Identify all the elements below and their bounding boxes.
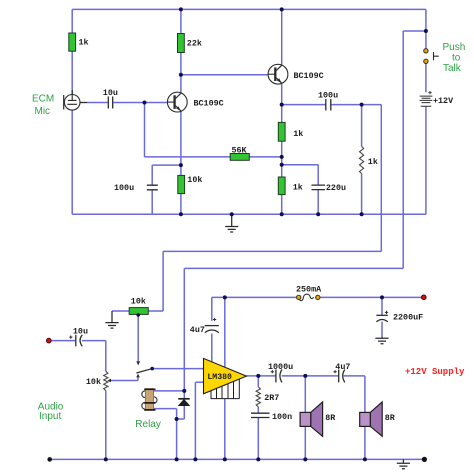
ground 2200uF — [375, 337, 388, 344]
svg-text:4u7: 4u7 — [190, 325, 205, 335]
junction bottom rail speaker2 — [363, 457, 367, 461]
wire 56K feedback — [145, 103, 282, 157]
svg-text:8R: 8R — [325, 413, 336, 423]
label capacitor 1000u label — [268, 362, 293, 372]
svg-text:+12V: +12V — [433, 96, 454, 106]
op-amp LM380 — [204, 358, 247, 398]
junction bottom rail LM380 gnd — [223, 457, 227, 461]
capacitor 100u emitter bypass — [147, 185, 158, 190]
svg-text:100n: 100n — [272, 412, 292, 422]
junction 56K right — [280, 155, 284, 159]
junction supply 2200uF — [380, 295, 384, 299]
resistor 2R7 zigzag — [256, 387, 260, 407]
label 100u bypass — [114, 183, 134, 193]
label Input — [39, 411, 61, 422]
junction top rail Q2 — [280, 7, 284, 11]
label 1k — [293, 182, 303, 192]
svg-text:10k: 10k — [187, 175, 202, 185]
wire PTT branch to relay — [184, 31, 426, 391]
resistor 1k Q2 emitter lower — [278, 177, 285, 195]
wire relay and diode — [154, 391, 185, 460]
wire switch pole to LM380 input — [154, 368, 204, 370]
wire 4u7 bypass branch — [211, 297, 213, 362]
svg-text:250mA: 250mA — [296, 285, 322, 295]
wire mic-pot wiper to switch — [137, 315, 139, 361]
label 1k volume — [368, 157, 378, 167]
capacitor 100n — [251, 413, 270, 417]
junction bottom rail relay — [175, 457, 179, 461]
junction bottom rail zobel — [256, 457, 260, 461]
junction relay top — [182, 389, 186, 393]
label 10k — [187, 175, 202, 185]
wire Q2 emitter column — [281, 84, 283, 214]
svg-text:Mic: Mic — [35, 106, 51, 117]
resistor 10k audio pot — [104, 371, 108, 390]
black terminal right — [422, 457, 427, 462]
svg-text:10k: 10k — [86, 377, 101, 387]
junction rail ground — [230, 212, 234, 216]
capacitor 100u Q2 coupling — [326, 99, 331, 111]
svg-text:BC109C: BC109C — [194, 98, 224, 108]
transistor Q2 BC109C — [268, 64, 288, 84]
ground upper rail — [225, 214, 238, 232]
red terminal +12V — [422, 295, 427, 300]
wire top rail — [72, 8, 426, 10]
resistor R1 1k mic supply — [69, 33, 76, 51]
resistor 1k Q2 emitter upper — [278, 122, 285, 141]
label Relay — [135, 419, 161, 430]
wire 2200uF branch — [381, 297, 383, 336]
junction bottom rail speaker1 — [303, 457, 307, 461]
label speaker 8R left label — [325, 413, 336, 423]
battery +12V — [420, 91, 433, 106]
svg-text:56K: 56K — [232, 145, 248, 155]
svg-text:220u: 220u — [326, 183, 346, 193]
junction 100u volume — [360, 103, 364, 107]
junction bottom rail inverting — [193, 457, 197, 461]
wire speaker2 column — [364, 376, 366, 460]
wire LM380 ground column — [224, 399, 226, 460]
capacitor 4u7 speaker2 — [334, 370, 345, 383]
svg-text:10u: 10u — [73, 326, 88, 336]
ground bottom right — [397, 459, 410, 468]
svg-text:BC109C: BC109C — [294, 71, 324, 81]
junction supply V+ — [223, 295, 227, 299]
fuse 250mA — [297, 294, 320, 300]
electret mic ECM — [64, 90, 87, 110]
switch lever — [136, 369, 152, 373]
speaker 8R right — [360, 402, 383, 436]
label 4u7 bypass — [190, 325, 205, 335]
resistor 10k mic volume pot — [129, 308, 148, 315]
label capacitor 4u7 speaker2 label — [335, 362, 350, 372]
wire LM380 output row — [246, 375, 365, 377]
capacitor 1000u — [271, 370, 282, 383]
label to — [452, 52, 461, 63]
label 1k — [293, 129, 303, 139]
junction top rail 22k — [179, 7, 183, 11]
wire 100u bypass branch — [152, 165, 181, 214]
wire push-to-talk column — [425, 9, 427, 214]
switch lower contact arrow — [136, 374, 140, 378]
resistor R2 22k — [178, 34, 185, 53]
svg-text:2200uF: 2200uF — [393, 312, 423, 322]
audio pot wiper arrow — [107, 379, 111, 383]
wire Q2 base bus — [181, 74, 268, 76]
junction PTT branch — [424, 29, 428, 33]
label 250mA — [296, 285, 322, 295]
svg-text:Input: Input — [39, 411, 61, 422]
svg-text:+12V Supply: +12V Supply — [405, 367, 465, 377]
svg-text:Relay: Relay — [135, 419, 161, 430]
svg-text:1000u: 1000u — [268, 362, 293, 372]
transistor Q1 BC109C — [167, 92, 187, 112]
junction rail volume — [360, 212, 364, 216]
svg-text:Push: Push — [443, 42, 466, 53]
label 10k audio — [86, 377, 101, 387]
label +12V Supply — [405, 367, 465, 377]
label 100u coupling — [318, 90, 338, 100]
svg-text:10u: 10u — [103, 88, 118, 98]
label transistor Q2 BC109C label — [294, 71, 324, 81]
label ECM — [32, 93, 54, 104]
ground mic pot — [105, 311, 118, 328]
switch pole dot — [150, 367, 154, 371]
wire volume 1k column — [361, 105, 363, 215]
svg-text:1k: 1k — [79, 38, 89, 48]
capacitor 10u mic coupling — [108, 97, 112, 109]
push to talk switch — [424, 49, 439, 64]
junction Q1 emitter bypass — [179, 163, 183, 167]
junction mic cap feedback — [143, 101, 147, 105]
mic pot wiper arrow — [136, 361, 140, 365]
label 22k — [187, 39, 202, 49]
svg-text:Talk: Talk — [443, 63, 462, 74]
label Audio — [38, 401, 64, 412]
svg-text:1k: 1k — [293, 129, 303, 139]
svg-text:ECM: ECM — [32, 93, 54, 104]
wire 220u branch — [282, 165, 319, 214]
resistor 1k volume zigzag — [360, 147, 364, 174]
wire LM380 inverting input — [195, 382, 203, 459]
wire signal to lower pot — [148, 105, 381, 311]
svg-text:1k: 1k — [368, 157, 378, 167]
junction rail 1k — [280, 212, 284, 216]
capacitor 2200uF — [376, 311, 388, 322]
capacitor 4u7 bypass — [205, 318, 219, 333]
junction speaker1 top — [303, 374, 307, 378]
junction rail 220u — [316, 212, 320, 216]
svg-text:to: to — [452, 52, 461, 63]
svg-text:10k: 10k — [131, 297, 146, 307]
label 220u — [326, 183, 346, 193]
label 10u mic — [103, 88, 118, 98]
svg-text:LM380: LM380 — [207, 373, 232, 382]
label Mic — [35, 106, 51, 117]
label LM380 — [207, 373, 232, 382]
capacitor 10u audio input — [69, 335, 82, 347]
label 2R7 — [264, 393, 279, 403]
svg-text:8R: 8R — [385, 413, 396, 423]
wire mic to Q1 base — [80, 102, 168, 104]
junction bottom rail audio pot — [104, 457, 108, 461]
svg-text:4u7: 4u7 — [335, 362, 350, 372]
junction diode relay bottom — [175, 417, 179, 421]
junction 22k collector base — [179, 73, 183, 77]
label transistor Q1 BC109C label — [194, 98, 224, 108]
wire upper ground rail — [72, 213, 426, 215]
label 2200uF — [393, 312, 423, 322]
label Talk — [443, 63, 462, 74]
junction rail 10k — [179, 212, 183, 216]
wire left column mic — [71, 9, 73, 214]
speaker 8R left — [300, 402, 323, 436]
label 1k — [79, 38, 89, 48]
pot wiper dot — [136, 313, 140, 317]
svg-text:22k: 22k — [187, 39, 202, 49]
label 100n — [272, 412, 292, 422]
resistor 10k Q1 emitter — [178, 175, 185, 193]
wire mic-pot left lead — [112, 310, 129, 312]
wire supply row with fuse — [212, 296, 422, 298]
audio input red terminal — [47, 338, 52, 343]
junction LM380 output — [256, 374, 260, 378]
label +12V — [433, 96, 454, 106]
svg-text:100u: 100u — [114, 183, 134, 193]
wire speaker1 column — [304, 376, 306, 460]
junction 220u branch — [280, 163, 284, 167]
wire Q2 collector — [281, 9, 283, 64]
resistor 56K feedback — [230, 154, 249, 161]
wire audio input column — [51, 341, 106, 460]
svg-text:2R7: 2R7 — [264, 393, 279, 403]
diode relay clamp — [178, 399, 189, 406]
label speaker 8R right label — [385, 413, 396, 423]
wire 22k and Q1 collector — [180, 9, 182, 93]
black terminal left — [47, 457, 52, 462]
wire LM380 V+ — [224, 297, 226, 367]
wire zobel branch — [257, 376, 259, 460]
label 10k — [131, 297, 146, 307]
relay coil — [142, 389, 157, 411]
svg-text:1k: 1k — [293, 182, 303, 192]
junction Q2 emitter — [280, 103, 284, 107]
label 10u audio — [73, 326, 88, 336]
svg-text:100u: 100u — [318, 90, 338, 100]
wire Q1 emitter column — [180, 111, 182, 214]
label 56K — [232, 145, 248, 155]
wire bottom ground rail — [50, 458, 425, 460]
label Push — [443, 42, 466, 53]
wire Q2 emitter row — [282, 104, 382, 106]
wire audio pot wiper to switch — [111, 377, 138, 380]
capacitor 220u — [312, 185, 326, 190]
